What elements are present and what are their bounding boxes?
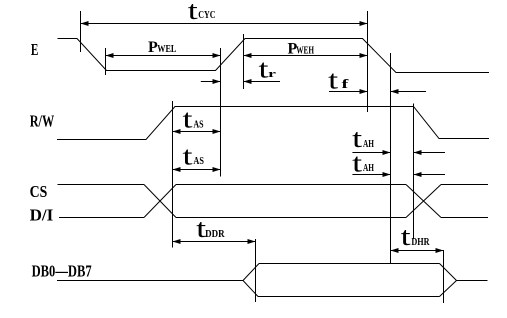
tick line tCYC-left x=80.5	[80, 11, 82, 52]
dim line tDHR	[391, 250, 444, 252]
svg-text:CS: CS	[30, 182, 48, 201]
dim line PWEL	[106, 55, 221, 57]
svg-text:CYC: CYC	[198, 9, 215, 21]
signal CS waveform	[58, 184, 489, 186]
arrowheads tr	[213, 79, 221, 84]
dim line tf right	[391, 91, 427, 93]
arrowheads tAS2	[173, 167, 181, 172]
dim line tr right + underline	[244, 81, 281, 83]
tick line tAH-right x=413.5	[413, 104, 415, 240]
svg-text:WEL: WEL	[157, 43, 176, 55]
svg-text:t: t	[401, 222, 412, 251]
tick line PWEL-left x=105.5	[105, 48, 107, 75]
svg-text:E: E	[31, 40, 39, 59]
CS/DI left crossover	[144, 185, 176, 218]
tick line tCYC-right x=367.5	[367, 11, 369, 112]
svg-text:R/W: R/W	[30, 112, 55, 131]
dim line tAH1	[352, 152, 445, 154]
arrowheads tf	[360, 89, 368, 94]
tick line tAS-left x=172.5	[172, 101, 174, 248]
tick line tDDR-right x=255.5	[255, 239, 257, 302]
svg-text:WEH: WEH	[296, 44, 314, 56]
signal E waveform	[58, 39, 490, 73]
svg-text:t: t	[183, 142, 194, 171]
svg-text:DHR: DHR	[411, 237, 430, 248]
tick line tDHR-right x=443.5	[443, 250, 445, 303]
arrowheads tAS1	[173, 129, 181, 134]
svg-text:t: t	[188, 0, 199, 25]
svg-text:t: t	[328, 65, 339, 94]
arrowheads tAH1	[383, 150, 391, 155]
dim line tAS1	[173, 131, 221, 133]
tick line tAS-right x=220.5	[220, 48, 222, 177]
svg-text:f: f	[342, 76, 350, 91]
dim line tr left	[201, 81, 221, 83]
tick line tf-right x=390.5	[390, 53, 392, 264]
tick line tr-right x=243.5	[243, 34, 245, 89]
svg-text:AS: AS	[193, 156, 204, 167]
svg-text:AH: AH	[363, 163, 374, 174]
svg-text:AH: AH	[363, 139, 374, 150]
dim line tDDR	[173, 241, 256, 243]
dim line tAH2	[352, 174, 445, 176]
svg-text:r: r	[268, 69, 277, 80]
arrowheads PWEH	[244, 53, 252, 58]
svg-text:DB0—DB7: DB0—DB7	[32, 261, 92, 280]
DB0-DB7 bus waveform	[57, 264, 488, 297]
svg-text:t: t	[352, 148, 363, 177]
svg-text:t: t	[183, 105, 194, 134]
arrowheads tDHR	[391, 248, 399, 253]
CS/DI right crossover	[406, 185, 441, 218]
arrowheads tDDR	[173, 239, 181, 244]
arrowheads PWEL	[106, 53, 114, 58]
dim line tCYC	[81, 23, 368, 25]
signal R/W waveform	[57, 107, 489, 140]
dim line tf left	[329, 91, 368, 93]
svg-text:D/I: D/I	[30, 206, 54, 225]
svg-text:DDR: DDR	[205, 229, 225, 240]
dim line tAS2	[173, 169, 221, 171]
signal D/I waveform	[59, 217, 488, 219]
arrowheads tAH2	[383, 172, 391, 177]
arrowheads tCYC	[81, 21, 89, 26]
dim line PWEH	[244, 55, 368, 57]
svg-text:AS: AS	[193, 119, 204, 130]
